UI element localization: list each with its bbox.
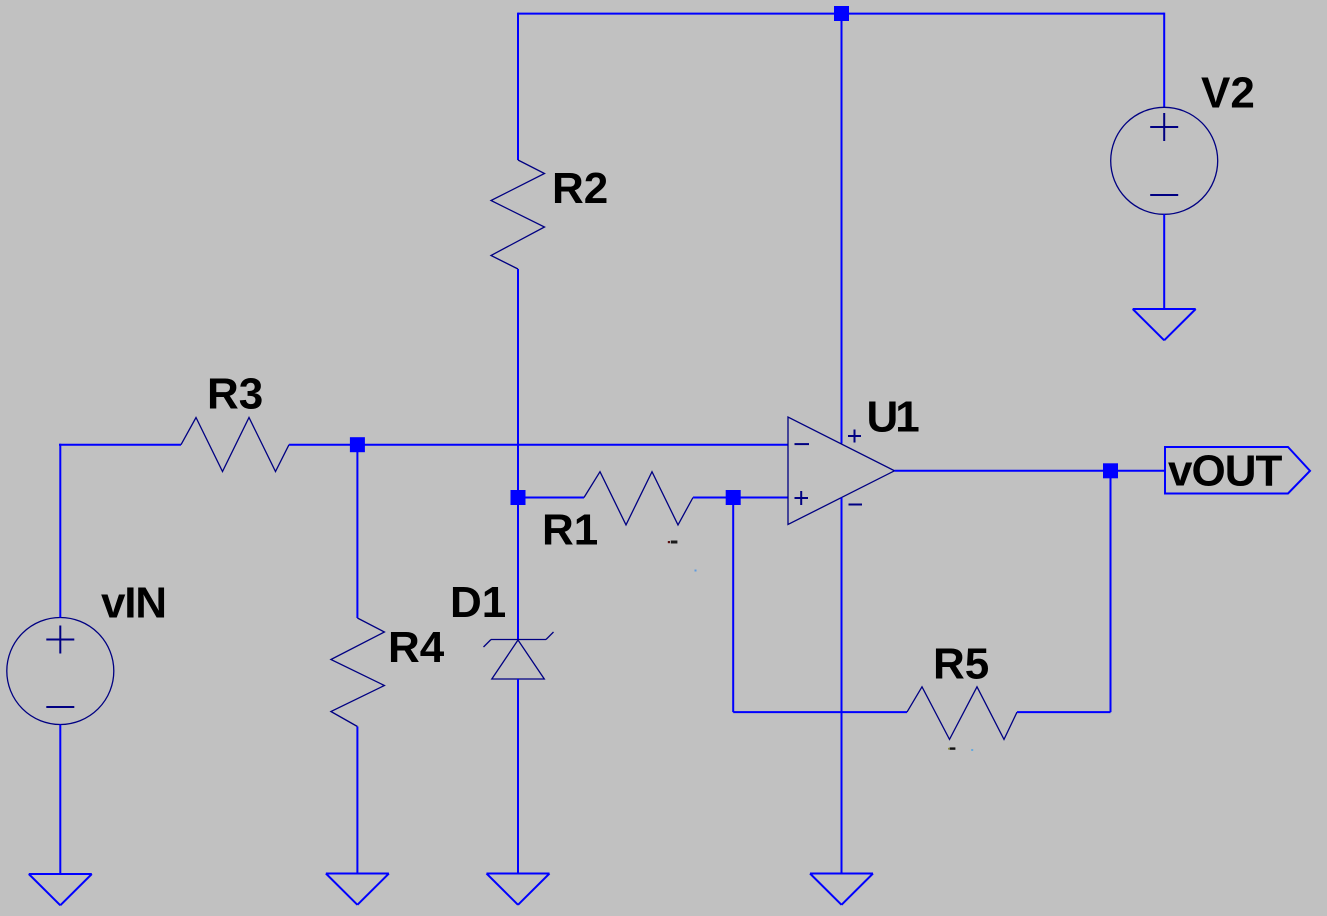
wire R3 to op-amp minus input — [289, 444, 788, 446]
svg-text:V2: V2 — [1201, 69, 1255, 118]
svg-text:D1: D1 — [450, 578, 506, 627]
node junction top rail / V+ — [834, 6, 849, 21]
op-amp U1 — [788, 417, 895, 525]
resistor R1 — [584, 472, 693, 525]
resistor R3 — [181, 418, 289, 472]
resistor R5 — [907, 687, 1017, 740]
ground below op-amp V- — [810, 874, 873, 905]
wire R2 top lead vertical — [517, 13, 519, 160]
wire op-amp output to vOUT flag — [895, 470, 1166, 472]
svg-text:U1: U1 — [867, 393, 920, 442]
node junction output/feedback — [1103, 463, 1118, 478]
svg-text:R2: R2 — [552, 164, 608, 213]
node junction R3/R4 — [350, 437, 365, 452]
wire R2 bottom to node — [517, 269, 519, 498]
artifact mark near R5 — [948, 747, 973, 751]
wire node to D1 — [517, 498, 519, 640]
svg-text:R1: R1 — [542, 506, 598, 555]
voltage source V2 — [1111, 107, 1218, 214]
svg-text:R3: R3 — [207, 370, 263, 419]
node junction R2/D1/R1 — [511, 490, 526, 505]
wire feedback rise to output node — [1110, 471, 1112, 712]
wire V2 bottom lead — [1163, 214, 1165, 309]
node junction R1/+input/feedback — [726, 490, 741, 505]
wire feedback drop — [732, 498, 734, 713]
wire vIN bottom lead — [59, 725, 61, 875]
voltage source vIN — [7, 618, 114, 725]
artifact mark near R1 — [668, 541, 697, 572]
wire vIN top lead up — [59, 444, 61, 618]
net flag vOUT — [1165, 447, 1310, 494]
wire V- supply drop to ground — [841, 498, 843, 874]
wire node down to R4 — [356, 445, 358, 618]
wire R4 bottom — [356, 727, 358, 874]
resistor R2 — [491, 160, 545, 269]
diode D1 (zener) — [484, 632, 554, 679]
ground below V2 — [1133, 309, 1196, 340]
ground below vIN — [29, 874, 92, 905]
wire vIN to R3 — [59, 444, 181, 446]
ground below R4 — [326, 874, 389, 905]
svg-text:R4: R4 — [388, 623, 445, 672]
wire top rail from R2 top to V2 top — [518, 13, 1164, 15]
svg-text:vOUT: vOUT — [1168, 447, 1282, 496]
wire node to R1 left — [518, 497, 584, 499]
wire feedback bottom run to R5 — [733, 711, 907, 713]
wire R1 right to node — [693, 497, 733, 499]
wire V+ supply drop to op-amp — [841, 14, 843, 444]
svg-text:vIN: vIN — [101, 579, 166, 628]
wire D1 anode down — [517, 679, 519, 874]
ground below D1 — [487, 874, 550, 905]
wire R5 right run — [1017, 711, 1111, 713]
wire node to op-amp plus input — [733, 497, 788, 499]
resistor R4 — [331, 618, 385, 727]
svg-text:R5: R5 — [933, 640, 989, 689]
wire V2 top lead — [1163, 13, 1165, 108]
